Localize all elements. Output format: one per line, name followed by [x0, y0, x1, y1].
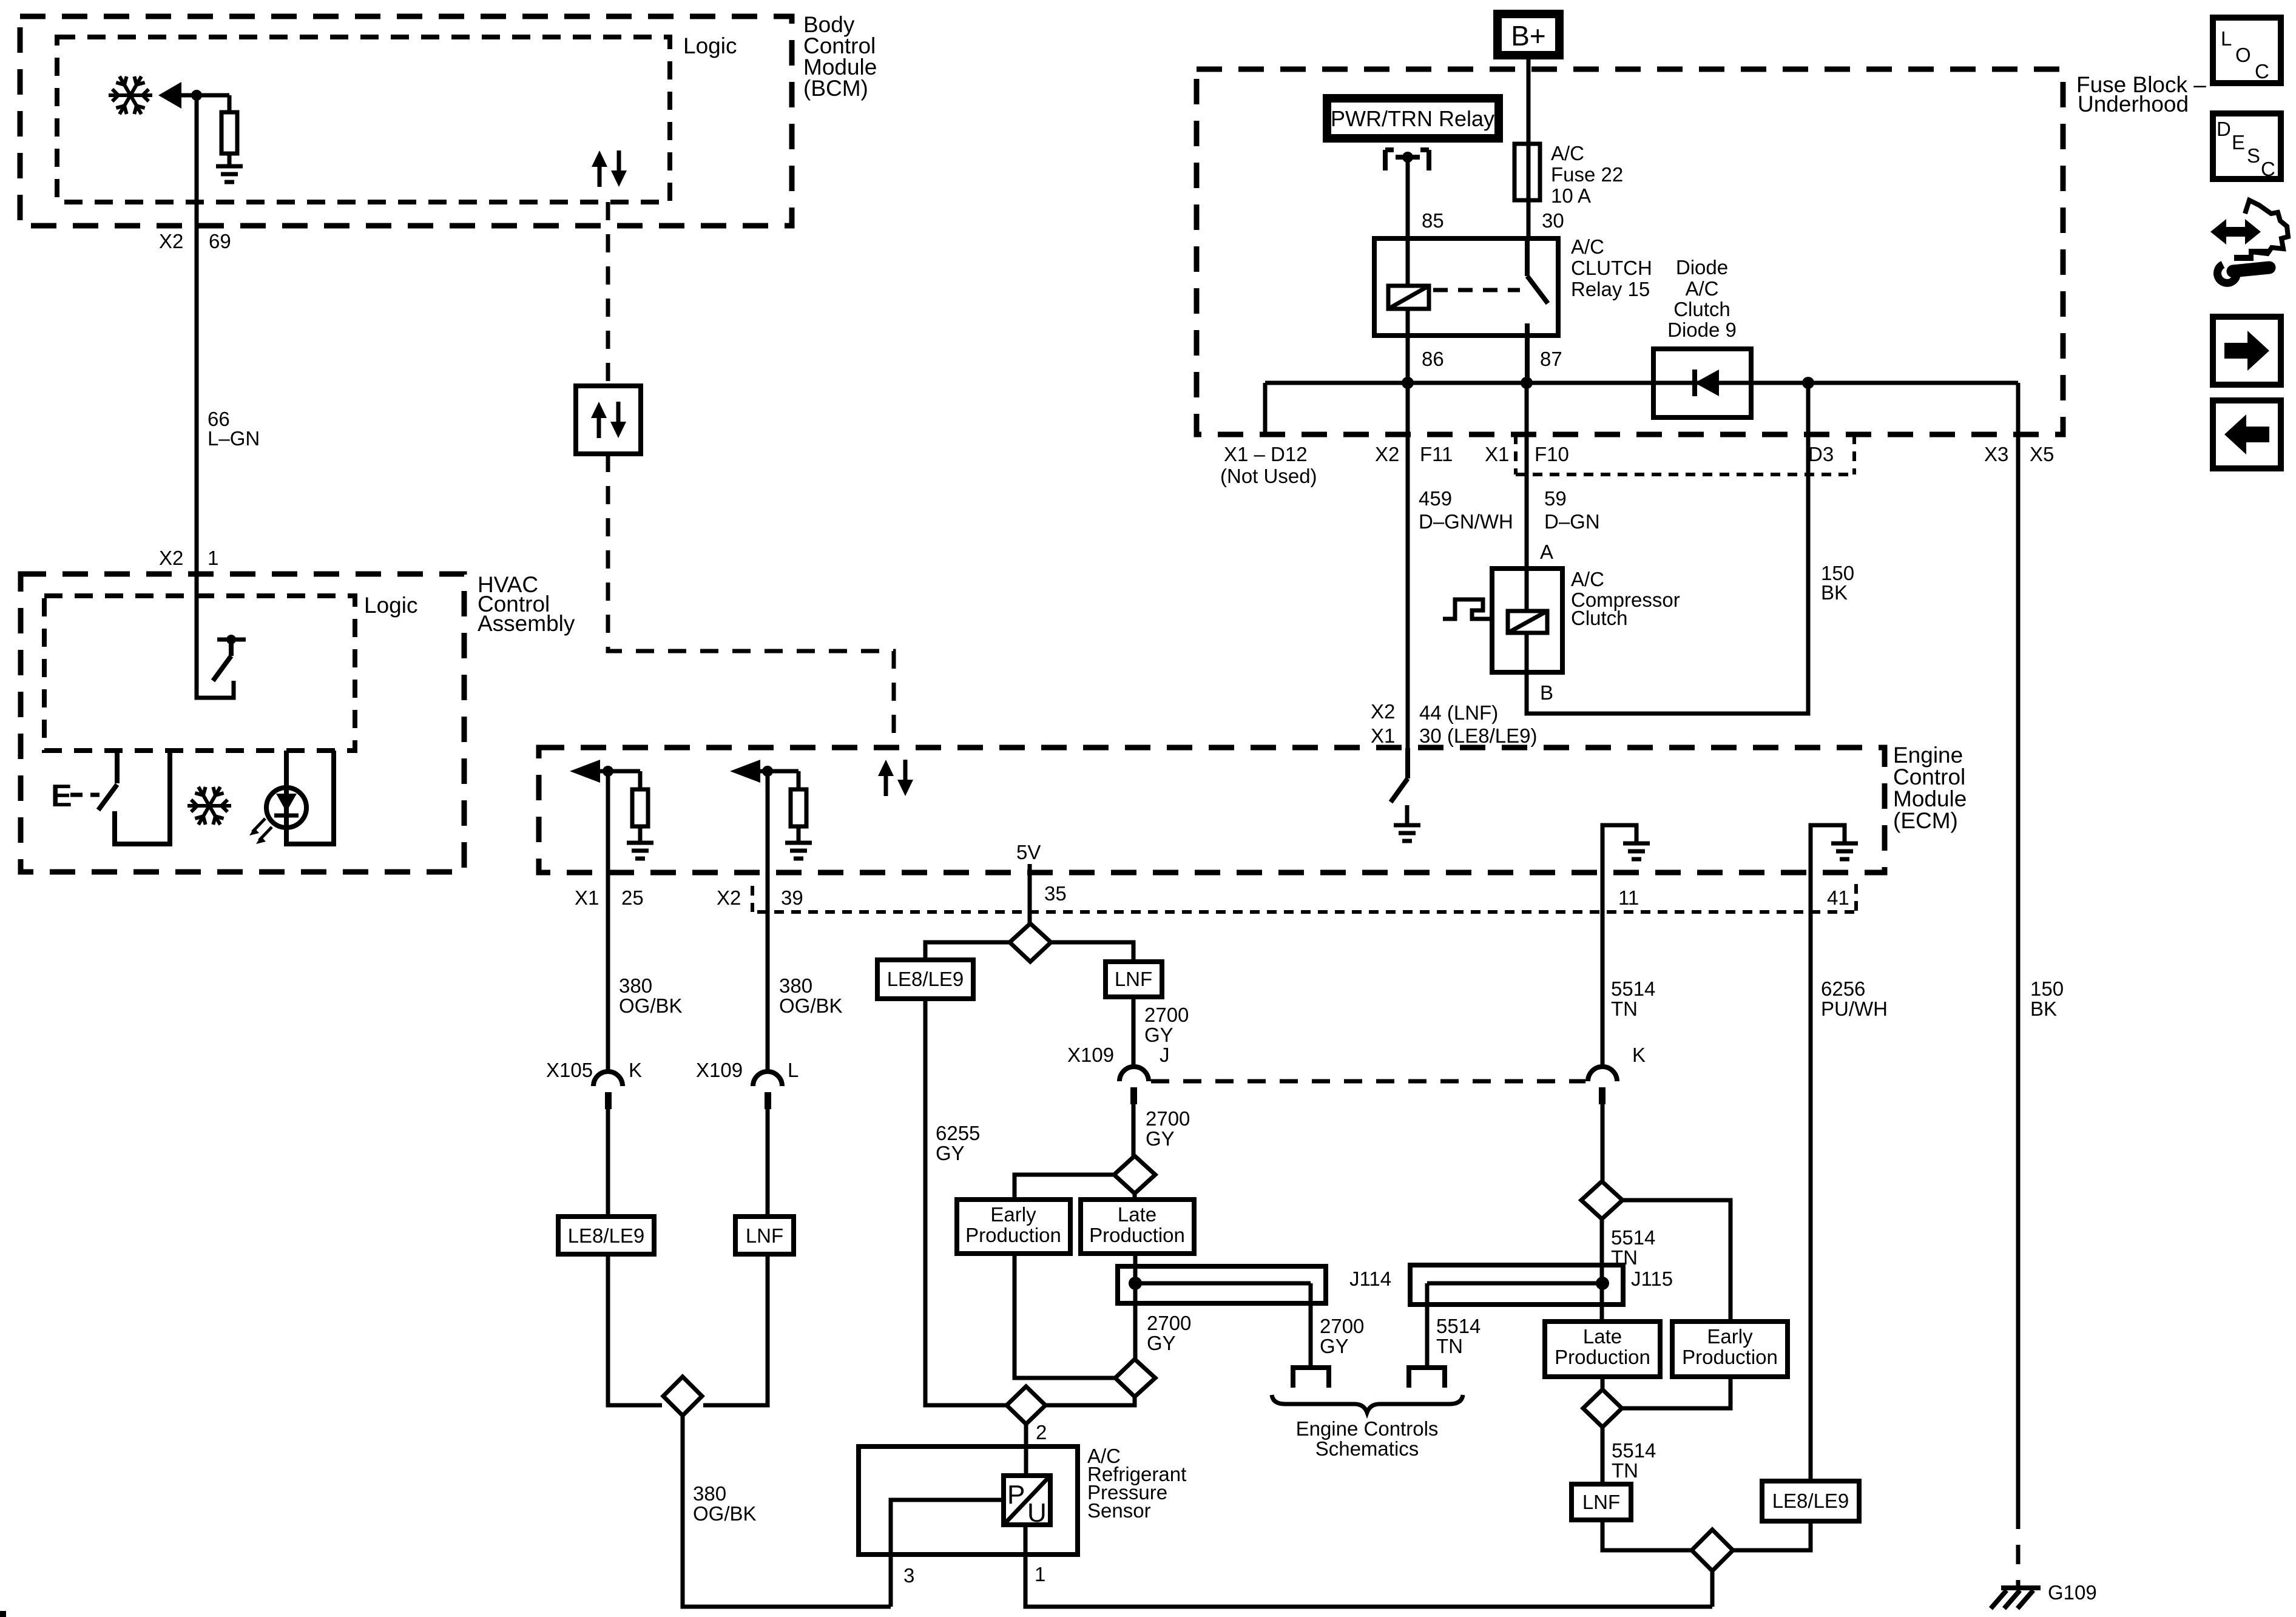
wire: to Late Production (left)	[1133, 1193, 1137, 1200]
svg-text:2700: 2700	[1320, 1315, 1364, 1337]
thermal limiter squiggle	[1443, 599, 1492, 619]
node: junction dot on BCM wire	[191, 90, 202, 101]
wire: LE8/LE9 to final splice	[1732, 1521, 1811, 1550]
connector X109 arc L	[753, 1072, 782, 1086]
svg-text:X2: X2	[717, 886, 741, 909]
wire: coil terminal to relay pin 85	[1406, 157, 1410, 238]
engine code box LE8/LE9 (5V)	[877, 960, 973, 999]
wire: merge down to splice 2	[1045, 1397, 1135, 1405]
svg-text:X2: X2	[1375, 443, 1399, 465]
node: dot at D3	[1802, 377, 1814, 389]
engine code box LNF (5V)	[1106, 962, 1162, 997]
wire: 5514 into J115	[1600, 1219, 1604, 1322]
svg-text:X2: X2	[159, 230, 183, 252]
icon box left arrow	[2213, 400, 2281, 468]
svg-text:TN: TN	[1436, 1335, 1463, 1357]
svg-text:X1: X1	[1485, 443, 1509, 465]
wire: serial data dashed from BCM logic down	[606, 202, 610, 386]
connector J115 box	[1410, 1265, 1623, 1305]
svg-text:2700: 2700	[1144, 1004, 1189, 1026]
wire: J115 tap to engine controls	[1427, 1283, 1602, 1368]
splice diamond 380	[663, 1377, 702, 1416]
svg-text:459: 459	[1419, 487, 1452, 510]
svg-text:3: 3	[903, 1564, 914, 1587]
svg-text:Relay 15: Relay 15	[1571, 278, 1650, 300]
svg-text:10 A: 10 A	[1551, 184, 1591, 207]
svg-text:85: 85	[1422, 209, 1444, 232]
module box: Body Control Module (BCM) outer dashed box	[20, 16, 792, 226]
svg-text:Early: Early	[990, 1203, 1036, 1226]
svg-text:F10: F10	[1535, 443, 1569, 465]
svg-text:B: B	[1540, 681, 1553, 704]
splice diamond 2700 merge	[1115, 1359, 1155, 1397]
box Early Production (right)	[1672, 1322, 1788, 1377]
wire: to Early Production (right)	[1622, 1200, 1730, 1322]
wire: below Early Production left	[1015, 1254, 1115, 1378]
svg-text:35: 35	[1044, 882, 1067, 905]
brace for engine controls schematics	[1272, 1395, 1463, 1413]
svg-text:69: 69	[209, 230, 231, 252]
A/C Compressor Clutch box	[1492, 569, 1562, 672]
serial data symbol in ECM	[878, 760, 913, 796]
wire: E switch lower contact loop	[115, 751, 170, 844]
sensor P/U symbol	[1004, 1476, 1050, 1525]
svg-text:E: E	[2232, 131, 2245, 154]
svg-text:Module: Module	[1893, 786, 1967, 811]
wire: sensor pin 1 signal to bus	[1025, 1525, 1712, 1607]
svg-text:CLUTCH: CLUTCH	[1571, 257, 1652, 279]
node: dot at 87	[1521, 377, 1533, 389]
diode: A/C Clutch Diode 9 box	[1653, 349, 1751, 417]
svg-text:Underhood: Underhood	[2078, 92, 2189, 116]
svg-text:X3: X3	[1984, 443, 2008, 465]
node: dot in J115	[1596, 1277, 1609, 1290]
svg-text:Engine Controls: Engine Controls	[1296, 1417, 1439, 1440]
splice diamond 2 (sensor supply)	[1007, 1386, 1045, 1424]
resistor ECM 2	[797, 771, 801, 842]
svg-text:1: 1	[208, 547, 218, 569]
wire: 5514 TN from ECM pin 11 to K	[1601, 873, 1605, 1067]
svg-text:Production: Production	[1682, 1346, 1778, 1368]
svg-text:Clutch: Clutch	[1673, 298, 1730, 320]
svg-text:X1: X1	[1371, 724, 1395, 747]
ECM ground pin 41	[1811, 825, 1845, 873]
svg-text:OG/BK: OG/BK	[619, 994, 683, 1017]
box Early Production (left)	[957, 1200, 1070, 1254]
svg-text:D: D	[2217, 118, 2231, 140]
wire: LNF to final splice	[1602, 1520, 1693, 1550]
wire: 2700 GY to production splice	[1132, 1104, 1136, 1156]
svg-text:D–GN/WH: D–GN/WH	[1419, 510, 1513, 533]
svg-text:X5: X5	[2030, 443, 2054, 465]
engine code box LE8/LE9 (bottom)	[1762, 1481, 1859, 1521]
ECM left input arrow 1	[570, 760, 600, 783]
ECM left input arrow 2	[730, 760, 760, 783]
terminal cap J115 leg	[1409, 1368, 1445, 1388]
LED photon arrows	[252, 819, 272, 840]
splice diamond 5514 merge	[1583, 1389, 1622, 1427]
svg-text:J114: J114	[1349, 1268, 1391, 1290]
connector J114 box	[1118, 1266, 1326, 1303]
svg-text:C: C	[2261, 158, 2275, 180]
svg-text:BK: BK	[2030, 998, 2057, 1020]
svg-text:K: K	[1632, 1044, 1646, 1066]
svg-text:41: 41	[1827, 886, 1849, 909]
engine code box LE8/LE9 (left)	[558, 1217, 654, 1254]
wire: 6255 GY down to splice 2	[925, 999, 1007, 1405]
svg-text:30: 30	[1542, 209, 1564, 232]
svg-text:PU/WH: PU/WH	[1821, 998, 1888, 1020]
svg-text:BK: BK	[1821, 581, 1848, 604]
svg-text:39: 39	[781, 886, 803, 909]
wire: sensor pin 3 low reference	[891, 1500, 1004, 1607]
PWR/TRN relay coil terminal bracket	[1385, 150, 1429, 170]
compressor clutch coil	[1508, 611, 1547, 633]
svg-text:OG/BK: OG/BK	[779, 994, 843, 1017]
ground ECM 1	[627, 843, 653, 859]
final splice diamond	[1692, 1530, 1733, 1571]
wire: 6256 PU/WH from ECM pin 41	[1809, 873, 1813, 1481]
svg-text:LNF: LNF	[746, 1224, 783, 1247]
svg-text:LNF: LNF	[1582, 1491, 1620, 1513]
svg-text:X109: X109	[696, 1059, 743, 1081]
svg-text:Early: Early	[1707, 1325, 1753, 1348]
svg-text:(Not Used): (Not Used)	[1220, 465, 1317, 487]
svg-text:A: A	[1540, 541, 1553, 563]
svg-text:87: 87	[1540, 348, 1562, 370]
serial data symbol in BCM (up/down arrows)	[592, 150, 627, 187]
wire: BCM pin X2-69 to HVAC pin X2-1 (circuit 66 L-GN)	[197, 95, 234, 698]
svg-text:150: 150	[2030, 977, 2064, 1000]
svg-text:25: 25	[621, 886, 644, 909]
HVAC inner Logic dashed box	[44, 596, 355, 751]
svg-text:5514: 5514	[1611, 977, 1655, 1000]
connector X1 dotted strip	[1516, 434, 1854, 474]
svg-text:PWR/TRN Relay: PWR/TRN Relay	[1331, 106, 1494, 131]
wire: splice to Early Production right	[1622, 1377, 1730, 1408]
BCM inner Logic dashed box	[57, 37, 670, 202]
svg-text:44 (LNF): 44 (LNF)	[1419, 701, 1498, 724]
svg-text:J: J	[1160, 1044, 1170, 1066]
relay: A/C CLUTCH Relay 15 box	[1374, 238, 1558, 336]
svg-text:LE8/LE9: LE8/LE9	[1772, 1490, 1849, 1512]
icon wrench and arrow	[2222, 227, 2249, 237]
svg-text:5514: 5514	[1612, 1439, 1656, 1462]
wire: to Early Production (left)	[1015, 1175, 1114, 1200]
svg-text:86: 86	[1422, 348, 1444, 370]
stray period mark bottom-left	[0, 1611, 6, 1617]
svg-text:GY: GY	[1147, 1332, 1176, 1354]
wire: 5V to splice	[1028, 864, 1032, 923]
wire: to LE8/LE9 box (left)	[606, 1109, 610, 1217]
svg-text:X105: X105	[546, 1059, 593, 1081]
fuse F22 (A/C Fuse 22 10A)	[1514, 144, 1540, 200]
node: dot pin 39 circuit	[762, 766, 773, 777]
svg-text:Logic: Logic	[364, 593, 417, 618]
svg-text:Diode: Diode	[1676, 256, 1728, 279]
ground in BCM	[216, 166, 243, 182]
node: dot at 86	[1402, 377, 1414, 389]
svg-text:Late: Late	[1118, 1203, 1156, 1226]
LED indicator in HVAC	[286, 751, 334, 844]
svg-text:B+: B+	[1511, 20, 1546, 52]
svg-text:E: E	[51, 778, 72, 814]
wire: 5514 TN to LNF	[1601, 1427, 1605, 1484]
svg-text:X1 – D12: X1 – D12	[1224, 443, 1308, 465]
svg-text:(BCM): (BCM)	[803, 76, 868, 101]
svg-text:GY: GY	[1320, 1335, 1349, 1357]
svg-text:Production: Production	[1555, 1346, 1650, 1368]
wire: 380 OG/BK from pin 25	[606, 771, 610, 1072]
svg-text:Production: Production	[1089, 1224, 1185, 1246]
svg-text:LNF: LNF	[1115, 968, 1152, 990]
module box: Engine Control Module (ECM) dashed box	[539, 748, 1885, 873]
snowflake icon (HVAC A/C indicator)	[187, 784, 231, 828]
svg-text:Logic: Logic	[683, 33, 737, 58]
svg-text:380: 380	[693, 1482, 726, 1505]
relay switch contact 30-87	[1527, 238, 1548, 383]
arrow into snowflake	[158, 82, 181, 109]
icon box DESC	[2213, 113, 2281, 179]
wire: K to splice	[1601, 1104, 1605, 1181]
wire: below Late Production right	[1601, 1377, 1605, 1389]
wire: junction row 86/87/diode/X3	[1265, 383, 2018, 434]
svg-text:380: 380	[779, 974, 812, 997]
svg-text:D3: D3	[1808, 443, 1834, 465]
svg-text:OG/BK: OG/BK	[693, 1502, 757, 1525]
svg-text:Diode 9: Diode 9	[1667, 319, 1737, 341]
svg-text:380: 380	[619, 974, 652, 997]
svg-text:Late: Late	[1583, 1325, 1622, 1348]
terminal cap J114 leg	[1293, 1368, 1329, 1388]
module box: HVAC Control Assembly outer dashed box	[21, 574, 464, 872]
icon box right arrow	[2213, 317, 2281, 385]
snowflake icon (BCM A/C request)	[109, 73, 152, 117]
svg-text:30 (LE8/LE9): 30 (LE8/LE9)	[1419, 724, 1537, 747]
svg-text:C: C	[2255, 60, 2269, 83]
engine code box LNF (left)	[735, 1217, 794, 1254]
ground G109 chassis symbol	[1991, 1588, 2041, 1609]
svg-text:6256: 6256	[1821, 977, 1865, 1000]
svg-text:K: K	[629, 1059, 642, 1081]
svg-text:X109: X109	[1067, 1044, 1114, 1066]
svg-text:2700: 2700	[1147, 1312, 1191, 1334]
svg-text:L–GN: L–GN	[208, 427, 260, 450]
splice diamond 5514 production	[1581, 1181, 1622, 1219]
svg-text:1: 1	[1035, 1563, 1045, 1585]
A/C Refrigerant Pressure Sensor box	[859, 1447, 1078, 1555]
splice diamond 2700 production	[1114, 1156, 1155, 1193]
node: dot in J114	[1129, 1277, 1142, 1290]
svg-text:S: S	[2247, 144, 2260, 167]
connector X109 arc K	[1588, 1067, 1617, 1081]
wire: 5V right branch to LNF	[1051, 942, 1133, 962]
svg-text:Engine: Engine	[1893, 743, 1963, 768]
svg-text:2700: 2700	[1146, 1107, 1190, 1130]
wire: to LNF box (left)	[766, 1109, 770, 1217]
svg-text:GY: GY	[1144, 1024, 1173, 1046]
wire: 150 BK right side to G109	[2016, 383, 2021, 1510]
wire: serial data dashed to ECM	[608, 454, 894, 748]
svg-text:X2: X2	[1371, 700, 1395, 723]
svg-text:Control: Control	[1893, 765, 1965, 789]
svg-text:LE8/LE9: LE8/LE9	[887, 968, 964, 990]
svg-text:P: P	[1007, 1480, 1025, 1510]
wire: Late Production through J114	[1133, 1254, 1138, 1359]
svg-text:Clutch: Clutch	[1571, 607, 1628, 629]
PWR/TRN Relay box label	[1327, 98, 1499, 138]
wire: B+ down through fuse to relay pin 30	[1527, 59, 1531, 238]
wires into 380 merge splice	[608, 1254, 768, 1405]
svg-text:X1: X1	[575, 886, 599, 909]
wire: 5V left branch to LE8/LE9	[925, 942, 1010, 960]
svg-text:LE8/LE9: LE8/LE9	[568, 1224, 645, 1247]
svg-text:J115: J115	[1631, 1268, 1673, 1290]
svg-text:6255: 6255	[936, 1122, 980, 1144]
wire: 459 D-GN/WH from pin 86 to ECM	[1406, 383, 1410, 748]
svg-text:A/C: A/C	[1551, 142, 1584, 164]
engine code box LNF (bottom)	[1572, 1484, 1631, 1520]
svg-text:59: 59	[1544, 487, 1567, 510]
svg-text:5514: 5514	[1436, 1315, 1481, 1337]
serial data boxed symbol	[576, 386, 641, 454]
power feed B+ box	[1497, 14, 1559, 55]
svg-text:G109: G109	[2048, 1581, 2097, 1604]
svg-text:Production: Production	[965, 1224, 1061, 1246]
node: dot pin 25 circuit	[603, 766, 613, 777]
svg-text:O: O	[2235, 44, 2251, 66]
svg-text:F11: F11	[1420, 443, 1453, 465]
svg-text:TN: TN	[1611, 998, 1638, 1020]
wire: 2700 GY from LNF to X109 J	[1132, 997, 1136, 1067]
svg-text:2: 2	[1036, 1421, 1047, 1443]
resistor in BCM (pull-up)	[228, 95, 232, 166]
switch in HVAC logic (A/C request switch)	[217, 638, 246, 642]
svg-text:Fuse 22: Fuse 22	[1551, 163, 1623, 186]
ECM driver ground	[1405, 805, 1410, 824]
svg-text:A/C: A/C	[1685, 277, 1718, 300]
splice diamond 5V	[1010, 923, 1051, 962]
wire: 380 OG/BK from pin 39	[766, 771, 770, 1072]
svg-text:D–GN: D–GN	[1544, 510, 1600, 533]
module box: Fuse Block - Underhood dashed box	[1197, 69, 2063, 434]
wire from arrow to resistor	[180, 93, 229, 98]
box Late Production (left)	[1081, 1200, 1194, 1254]
connector X105 arc K	[593, 1072, 623, 1086]
svg-text:L: L	[788, 1059, 799, 1081]
svg-text:11: 11	[1618, 886, 1639, 909]
wire: 59 D-GN from pin 87 to compressor clutch A	[1525, 383, 1529, 611]
ECM ground pin 11	[1602, 825, 1636, 873]
svg-text:GY: GY	[936, 1142, 965, 1164]
resistor ECM 1	[638, 771, 643, 842]
svg-text:A/C: A/C	[1571, 235, 1604, 258]
svg-text:Assembly: Assembly	[478, 611, 575, 636]
relay coil	[1388, 286, 1429, 309]
svg-text:X2: X2	[159, 547, 183, 569]
ECM connector dotted strip	[752, 884, 1856, 912]
svg-text:GY: GY	[1146, 1127, 1175, 1150]
box Late Production (right)	[1545, 1322, 1660, 1377]
svg-text:(ECM): (ECM)	[1893, 808, 1958, 833]
svg-text:5514: 5514	[1611, 1226, 1655, 1249]
wire: splice to sensor pin 2	[1024, 1424, 1028, 1476]
connector X109 arc J	[1119, 1067, 1149, 1081]
wire: clutch B loop to 150 BK (D3)	[1527, 383, 1808, 714]
ground ECM 2	[785, 843, 812, 859]
wire: final splice to sensor bus	[1710, 1571, 1715, 1607]
wire: J114 tap to engine controls	[1135, 1283, 1311, 1368]
svg-text:A/C: A/C	[1571, 568, 1604, 590]
relay dashed actuation link	[1433, 288, 1520, 292]
svg-text:Sensor: Sensor	[1087, 1499, 1151, 1522]
svg-text:TN: TN	[1612, 1459, 1638, 1482]
svg-text:5V: 5V	[1016, 841, 1041, 863]
svg-text:U: U	[1027, 1498, 1047, 1528]
ECM driver switch for 459	[1391, 748, 1408, 802]
icon box LOC	[2213, 18, 2281, 83]
svg-text:L: L	[2221, 27, 2232, 50]
dashed connector line X109 J-K	[1151, 1079, 1585, 1084]
svg-text:Schematics: Schematics	[1315, 1437, 1419, 1460]
wire: 380 OG/BK to sensor pin 3 bus	[683, 1416, 891, 1607]
